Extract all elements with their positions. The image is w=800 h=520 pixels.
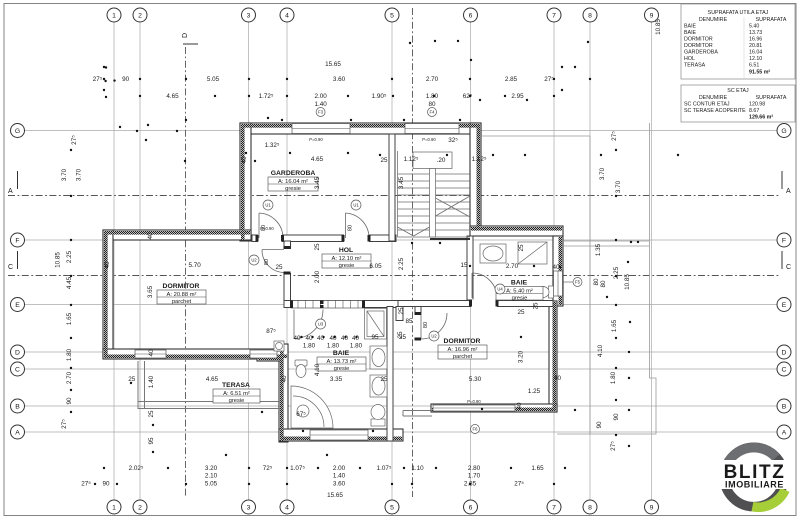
interior dimensions	[128, 137, 561, 418]
wall garderoba-stair divider	[389, 134, 395, 241]
svg-text:40: 40	[552, 264, 560, 271]
svg-text:SUPRAFATA: SUPRAFATA	[756, 95, 787, 101]
DIMENSIONS	[81, 61, 554, 499]
svg-text:3: 3	[247, 13, 251, 20]
wall baie5 west	[467, 236, 473, 300]
section marker A right	[782, 171, 791, 195]
svg-text:A: A	[8, 188, 13, 195]
svg-text:5.05: 5.05	[207, 76, 220, 83]
svg-text:A: 12.10 m²: A: 12.10 m²	[332, 256, 362, 262]
svg-text:1.70: 1.70	[468, 473, 481, 480]
svg-text:27⁵: 27⁵	[93, 76, 103, 83]
svg-text:7: 7	[552, 13, 556, 20]
svg-text:1.80: 1.80	[327, 343, 340, 350]
svg-text:1.80: 1.80	[303, 343, 316, 350]
svg-text:40: 40	[329, 335, 337, 342]
svg-text:5.40: 5.40	[749, 24, 759, 30]
svg-text:U3: U3	[318, 322, 324, 327]
svg-text:1.65: 1.65	[531, 465, 544, 472]
GRID BUBBLES LEFT	[11, 124, 25, 440]
svg-text:27⁵: 27⁵	[610, 441, 617, 451]
window/door tag circles	[249, 108, 582, 434]
wall hol south band	[284, 301, 403, 308]
svg-text:BAIE: BAIE	[684, 24, 697, 30]
window top 2	[405, 124, 459, 134]
wall baie south	[279, 429, 403, 441]
svg-text:3.60: 3.60	[333, 76, 346, 83]
stair spine	[430, 169, 436, 238]
svg-text:P=0.90: P=0.90	[422, 137, 436, 142]
vanity 2 baie13	[370, 375, 387, 397]
svg-text:1.10: 1.10	[411, 465, 424, 472]
grid line 3	[248, 22, 250, 500]
ROOM LABELS	[163, 170, 528, 389]
svg-text:1.07⁵: 1.07⁵	[377, 465, 392, 472]
svg-text:5: 5	[390, 505, 394, 512]
svg-text:6.51: 6.51	[749, 63, 759, 69]
wall baie5 top	[470, 226, 563, 236]
shower baie5	[518, 242, 547, 264]
left band rotated	[55, 135, 83, 429]
svg-text:40: 40	[554, 375, 562, 382]
svg-text:A: 20.88 m²: A: 20.88 m²	[167, 292, 197, 298]
svg-text:2.25: 2.25	[66, 250, 73, 263]
svg-text:A: 6.51 m²: A: 6.51 m²	[223, 391, 250, 397]
svg-text:25: 25	[128, 376, 136, 383]
svg-text:parchet: parchet	[453, 354, 473, 360]
svg-text:25: 25	[518, 244, 525, 252]
svg-text:E: E	[15, 302, 20, 309]
svg-text:25: 25	[148, 410, 155, 418]
svg-text:40: 40	[352, 335, 360, 342]
door openings (white gaps)	[258, 234, 497, 339]
window dormitor1 south	[135, 350, 166, 358]
svg-text:GARDEROBA: GARDEROBA	[684, 50, 718, 56]
svg-text:3: 3	[247, 505, 251, 512]
svg-text:90: 90	[102, 481, 110, 488]
wall dormitor1 top	[103, 230, 251, 240]
svg-text:SC CONTUR ETAJ: SC CONTUR ETAJ	[684, 102, 730, 108]
opening hol-dormitor1	[283, 249, 292, 273]
svg-text:U2: U2	[431, 334, 437, 339]
svg-text:3.20: 3.20	[205, 465, 218, 472]
svg-text:P=0.90: P=0.90	[467, 399, 481, 404]
svg-text:A: A	[786, 188, 791, 195]
svg-text:27⁵: 27⁵	[71, 135, 78, 145]
wall top exterior	[240, 123, 481, 134]
svg-text:25: 25	[517, 309, 525, 316]
insulation bands	[104, 124, 562, 441]
grid line 4	[286, 22, 288, 500]
svg-text:8: 8	[588, 13, 592, 20]
svg-text:DORMITOR: DORMITOR	[684, 37, 713, 43]
svg-text:16.96: 16.96	[749, 37, 762, 43]
opening garderoba door1	[258, 234, 282, 243]
svg-text:1.80: 1.80	[350, 343, 363, 350]
svg-text:BAIE: BAIE	[333, 350, 350, 357]
section line A-A	[8, 195, 780, 197]
svg-text:DENUMIRE: DENUMIRE	[699, 95, 728, 101]
interior rotated dims	[104, 156, 540, 445]
svg-text:SUPRAFATA UTILA ETAJ: SUPRAFATA UTILA ETAJ	[708, 10, 769, 16]
TABLES	[681, 4, 795, 122]
svg-text:1.65: 1.65	[611, 319, 618, 332]
svg-text:2.80: 2.80	[468, 465, 481, 472]
svg-text:67⁵: 67⁵	[296, 411, 306, 418]
svg-text:40: 40	[241, 156, 248, 164]
svg-text:A: 16.04 m²: A: 16.04 m²	[278, 179, 308, 185]
svg-text:1.32⁵: 1.32⁵	[265, 142, 280, 149]
svg-text:F6: F6	[473, 427, 479, 432]
svg-text:2.70: 2.70	[66, 371, 73, 384]
svg-text:15.65: 15.65	[325, 61, 341, 68]
grid line B	[25, 405, 777, 407]
toilet baie13 bottom	[371, 419, 385, 426]
svg-text:U1: U1	[265, 203, 271, 208]
svg-text:B: B	[15, 404, 20, 411]
svg-text:80: 80	[423, 322, 429, 328]
svg-text:6: 6	[469, 13, 473, 20]
svg-text:10.85: 10.85	[655, 19, 662, 35]
svg-text:5: 5	[390, 13, 394, 20]
svg-text:TERASA: TERASA	[222, 382, 250, 389]
svg-text:10.85: 10.85	[624, 274, 631, 290]
svg-text:D: D	[15, 350, 20, 357]
svg-text:1.80: 1.80	[66, 348, 73, 361]
section line vertical right	[412, 8, 414, 497]
svg-text:120.98: 120.98	[749, 102, 765, 108]
svg-text:3.70: 3.70	[615, 180, 622, 193]
svg-text:91.55 m²: 91.55 m²	[749, 70, 770, 76]
svg-text:3.60: 3.60	[333, 481, 346, 488]
svg-text:DORMITOR: DORMITOR	[163, 283, 200, 290]
svg-text:40: 40	[293, 335, 301, 342]
WINDOWS (white with frame)	[135, 124, 563, 441]
wall dormitor1 south	[103, 349, 288, 359]
section marker C right	[782, 251, 791, 271]
wall baie east	[387, 307, 393, 442]
svg-text:.20: .20	[437, 157, 446, 164]
svg-text:1.80: 1.80	[426, 93, 439, 100]
svg-text:A: 13.73 m²: A: 13.73 m²	[327, 359, 357, 365]
svg-text:1.90⁵: 1.90⁵	[372, 93, 387, 100]
svg-text:4.10: 4.10	[314, 363, 321, 376]
right band rotated	[593, 19, 662, 451]
svg-text:SC ETAJ: SC ETAJ	[727, 88, 749, 94]
svg-text:3.70: 3.70	[61, 168, 68, 181]
svg-text:BAIE: BAIE	[684, 30, 697, 36]
svg-text:2: 2	[138, 13, 142, 20]
svg-text:2.02⁵: 2.02⁵	[129, 465, 144, 472]
svg-text:A: 16.96 m²: A: 16.96 m²	[448, 347, 478, 353]
opening baie5 door	[471, 300, 497, 308]
grid line 1	[113, 22, 115, 500]
svg-text:5.70: 5.70	[188, 262, 201, 269]
svg-text:gresie: gresie	[334, 366, 350, 372]
svg-text:gresie: gresie	[339, 263, 355, 269]
svg-text:40: 40	[147, 232, 154, 240]
section marker D top	[182, 33, 198, 44]
door hol-dormitor1	[262, 249, 284, 251]
stair arrow V	[398, 227, 414, 236]
svg-text:2.95: 2.95	[511, 93, 524, 100]
svg-text:6: 6	[469, 505, 473, 512]
svg-text:1: 1	[112, 13, 116, 20]
svg-text:2.00: 2.00	[314, 93, 327, 100]
door hol-baie13	[293, 310, 295, 339]
svg-text:2.70: 2.70	[506, 263, 519, 270]
svg-text:8: 8	[588, 505, 592, 512]
svg-text:25: 25	[275, 264, 283, 271]
svg-text:32⁵: 32⁵	[448, 137, 458, 144]
GRID BUBBLES TOP	[107, 8, 659, 22]
svg-text:27⁵: 27⁵	[544, 76, 554, 83]
contour roof right	[481, 136, 590, 434]
stair upper landing box	[413, 152, 452, 169]
svg-text:U1: U1	[353, 203, 359, 208]
svg-text:7: 7	[552, 505, 556, 512]
svg-text:1.72⁵: 1.72⁵	[259, 93, 274, 100]
svg-text:87⁵: 87⁵	[266, 328, 276, 335]
svg-text:U4: U4	[497, 287, 503, 292]
grid line G	[25, 130, 777, 132]
svg-text:15.65: 15.65	[327, 492, 343, 499]
sink baie5	[480, 244, 506, 263]
svg-text:1: 1	[112, 505, 116, 512]
grid line 8	[589, 22, 591, 500]
parapet dormitor2 left	[403, 410, 432, 412]
svg-text:DORMITOR: DORMITOR	[444, 338, 481, 345]
svg-text:25: 25	[398, 307, 405, 315]
svg-text:80: 80	[600, 280, 607, 288]
svg-text:2.00: 2.00	[333, 465, 346, 472]
DOORS	[259, 213, 497, 339]
svg-text:4.10: 4.10	[597, 344, 604, 357]
parapet terasa south	[138, 401, 280, 403]
svg-text:5.05: 5.05	[205, 481, 218, 488]
wall nook stub	[415, 307, 421, 315]
svg-text:9: 9	[650, 505, 654, 512]
svg-text:20.81: 20.81	[749, 43, 762, 49]
toilet baie5	[549, 286, 554, 298]
svg-text:12.10: 12.10	[749, 56, 762, 62]
svg-text:F3: F3	[318, 110, 324, 115]
svg-text:DENUMIRE: DENUMIRE	[699, 17, 728, 23]
svg-text:90: 90	[613, 413, 620, 421]
svg-text:15: 15	[460, 262, 468, 269]
svg-text:SUPRAFATA: SUPRAFATA	[756, 17, 787, 23]
svg-text:1.65: 1.65	[66, 312, 73, 325]
svg-text:F: F	[782, 238, 786, 245]
svg-text:G: G	[15, 128, 20, 135]
svg-text:TERASA: TERASA	[684, 63, 706, 69]
svg-text:2.00: 2.00	[314, 270, 321, 283]
door nook-dormitor2	[420, 313, 422, 339]
svg-text:95: 95	[371, 334, 379, 341]
svg-text:27⁵: 27⁵	[81, 481, 91, 488]
svg-text:F5: F5	[575, 280, 581, 285]
svg-text:E: E	[782, 302, 787, 309]
svg-text:40: 40	[516, 402, 523, 410]
svg-text:P=0.90: P=0.90	[309, 137, 323, 142]
svg-text:A: A	[782, 430, 787, 437]
svg-text:8.67: 8.67	[749, 108, 759, 114]
section marker C left	[8, 251, 18, 271]
svg-text:3.70: 3.70	[76, 168, 83, 181]
door size labels	[261, 225, 429, 328]
svg-text:3.45: 3.45	[314, 176, 321, 189]
closet band in hol south wall	[291, 301, 364, 309]
BLITZ logo	[717, 443, 791, 512]
svg-text:1.35: 1.35	[595, 243, 602, 256]
window top 1	[292, 124, 350, 134]
grid line D	[25, 351, 777, 353]
svg-text:DORMITOR: DORMITOR	[684, 43, 713, 49]
window baie5 east	[554, 271, 563, 296]
grid line 6	[470, 22, 472, 500]
svg-text:25: 25	[380, 376, 388, 383]
svg-text:2: 2	[138, 505, 142, 512]
svg-text:90: 90	[596, 421, 603, 429]
thin ground floor contour	[481, 123, 656, 434]
svg-text:D: D	[782, 350, 787, 357]
svg-text:25: 25	[314, 243, 321, 251]
svg-text:gresie: gresie	[285, 186, 301, 192]
svg-text:80: 80	[261, 225, 267, 231]
svg-text:parchet: parchet	[172, 299, 192, 305]
svg-text:4: 4	[285, 13, 289, 20]
toilet baie13 left	[295, 360, 307, 366]
svg-text:25: 25	[533, 302, 540, 310]
svg-text:SC TERASE ACOPERITE: SC TERASE ACOPERITE	[684, 108, 746, 114]
stair treads right flight	[436, 173, 471, 175]
svg-text:3.35: 3.35	[330, 376, 343, 383]
svg-text:1.40: 1.40	[314, 101, 327, 108]
wall dormitor2 south	[431, 404, 557, 412]
grid line C	[25, 368, 777, 370]
door jamb marks	[256, 235, 499, 341]
svg-text:6.05: 6.05	[369, 263, 382, 270]
wall upper-left exterior	[240, 123, 251, 241]
svg-text:1.40: 1.40	[333, 473, 346, 480]
section marker A left	[8, 171, 18, 195]
window head marks	[260, 137, 481, 428]
svg-text:2.70: 2.70	[426, 76, 439, 83]
svg-text:40: 40	[281, 375, 288, 383]
grid line 9	[651, 22, 653, 500]
svg-text:2.25: 2.25	[613, 266, 620, 279]
wall left exterior	[103, 230, 113, 358]
svg-text:1.40: 1.40	[148, 375, 155, 388]
interior walls (double line, white core)	[252, 134, 553, 441]
svg-text:1.12⁵: 1.12⁵	[404, 156, 419, 163]
window baie south	[310, 430, 368, 440]
svg-text:95: 95	[148, 437, 155, 445]
svg-text:D: D	[182, 33, 189, 38]
svg-text:4.65: 4.65	[166, 93, 179, 100]
wall dormitor2 east	[549, 301, 557, 412]
section line C-C	[8, 275, 780, 277]
wall upper-right exterior	[470, 123, 481, 231]
svg-text:2.85: 2.85	[505, 76, 518, 83]
svg-text:B: B	[782, 404, 787, 411]
svg-text:BAIE: BAIE	[511, 280, 528, 287]
svg-text:HOL: HOL	[339, 247, 353, 254]
svg-text:U2: U2	[251, 258, 257, 263]
svg-text:A: A	[15, 430, 20, 437]
wall dormitor2 top	[398, 301, 553, 307]
svg-text:HOL: HOL	[684, 56, 695, 62]
svg-text:13.73: 13.73	[749, 30, 762, 36]
svg-text:IMOBILIARE: IMOBILIARE	[725, 480, 784, 490]
svg-text:C: C	[786, 264, 791, 271]
WALLS : exterior = white rect + outline + insulation band on outer edge	[103, 123, 563, 442]
svg-text:27⁵: 27⁵	[514, 481, 524, 488]
svg-text:3.70: 3.70	[599, 167, 606, 180]
section line D vertical left	[185, 47, 187, 497]
svg-text:G: G	[781, 128, 786, 135]
wall baie5 right	[553, 236, 563, 306]
svg-text:16.04: 16.04	[749, 50, 762, 56]
stair treads left flight	[398, 173, 430, 175]
wall baie west	[279, 344, 288, 442]
grid line A	[25, 431, 777, 433]
svg-text:gresie: gresie	[512, 295, 528, 301]
svg-text:25: 25	[380, 157, 388, 164]
corner tub baie13	[291, 386, 333, 428]
svg-text:2.25: 2.25	[398, 257, 405, 270]
svg-text:80: 80	[264, 259, 270, 265]
STAIRS	[398, 151, 471, 239]
svg-text:A: 5.40 m²: A: 5.40 m²	[506, 289, 533, 295]
svg-text:62⁵: 62⁵	[463, 93, 473, 100]
svg-text:129.66 m²: 129.66 m²	[749, 115, 773, 121]
room area boxes	[157, 177, 543, 403]
svg-text:1.25: 1.25	[528, 388, 541, 395]
opening nook door	[415, 315, 422, 339]
svg-text:1.07⁵: 1.07⁵	[290, 465, 305, 472]
svg-text:3.20: 3.20	[518, 350, 525, 363]
svg-text:4: 4	[285, 505, 289, 512]
grid line F	[25, 239, 777, 241]
svg-text:5.30: 5.30	[469, 376, 482, 383]
svg-text:C: C	[8, 264, 13, 271]
wall terasa-baie seg	[257, 351, 282, 361]
window terasa-baie	[250, 350, 277, 358]
shower baie13	[365, 309, 387, 340]
grid line 2	[139, 22, 141, 500]
parapet terasa west	[137, 361, 139, 409]
svg-text:4.45: 4.45	[66, 276, 73, 289]
GRID BUBBLES RIGHT	[777, 124, 791, 440]
svg-text:40: 40	[148, 349, 155, 357]
corner sink baie13	[274, 341, 284, 351]
stair direction cross	[436, 196, 471, 216]
svg-text:C: C	[15, 367, 20, 374]
svg-text:1.12⁵: 1.12⁵	[472, 156, 487, 163]
svg-text:3.65: 3.65	[147, 285, 154, 298]
svg-text:2.10: 2.10	[205, 473, 218, 480]
svg-text:GARDEROBA: GARDEROBA	[271, 170, 316, 177]
svg-text:80: 80	[593, 278, 600, 286]
svg-text:27⁵: 27⁵	[611, 131, 618, 141]
svg-text:10.85: 10.85	[55, 252, 62, 268]
svg-text:72⁵: 72⁵	[263, 465, 273, 472]
vanity 1 baie13	[370, 346, 387, 369]
grid line 5	[391, 22, 393, 500]
svg-text:80: 80	[428, 101, 436, 108]
svg-text:F4: F4	[430, 110, 436, 115]
